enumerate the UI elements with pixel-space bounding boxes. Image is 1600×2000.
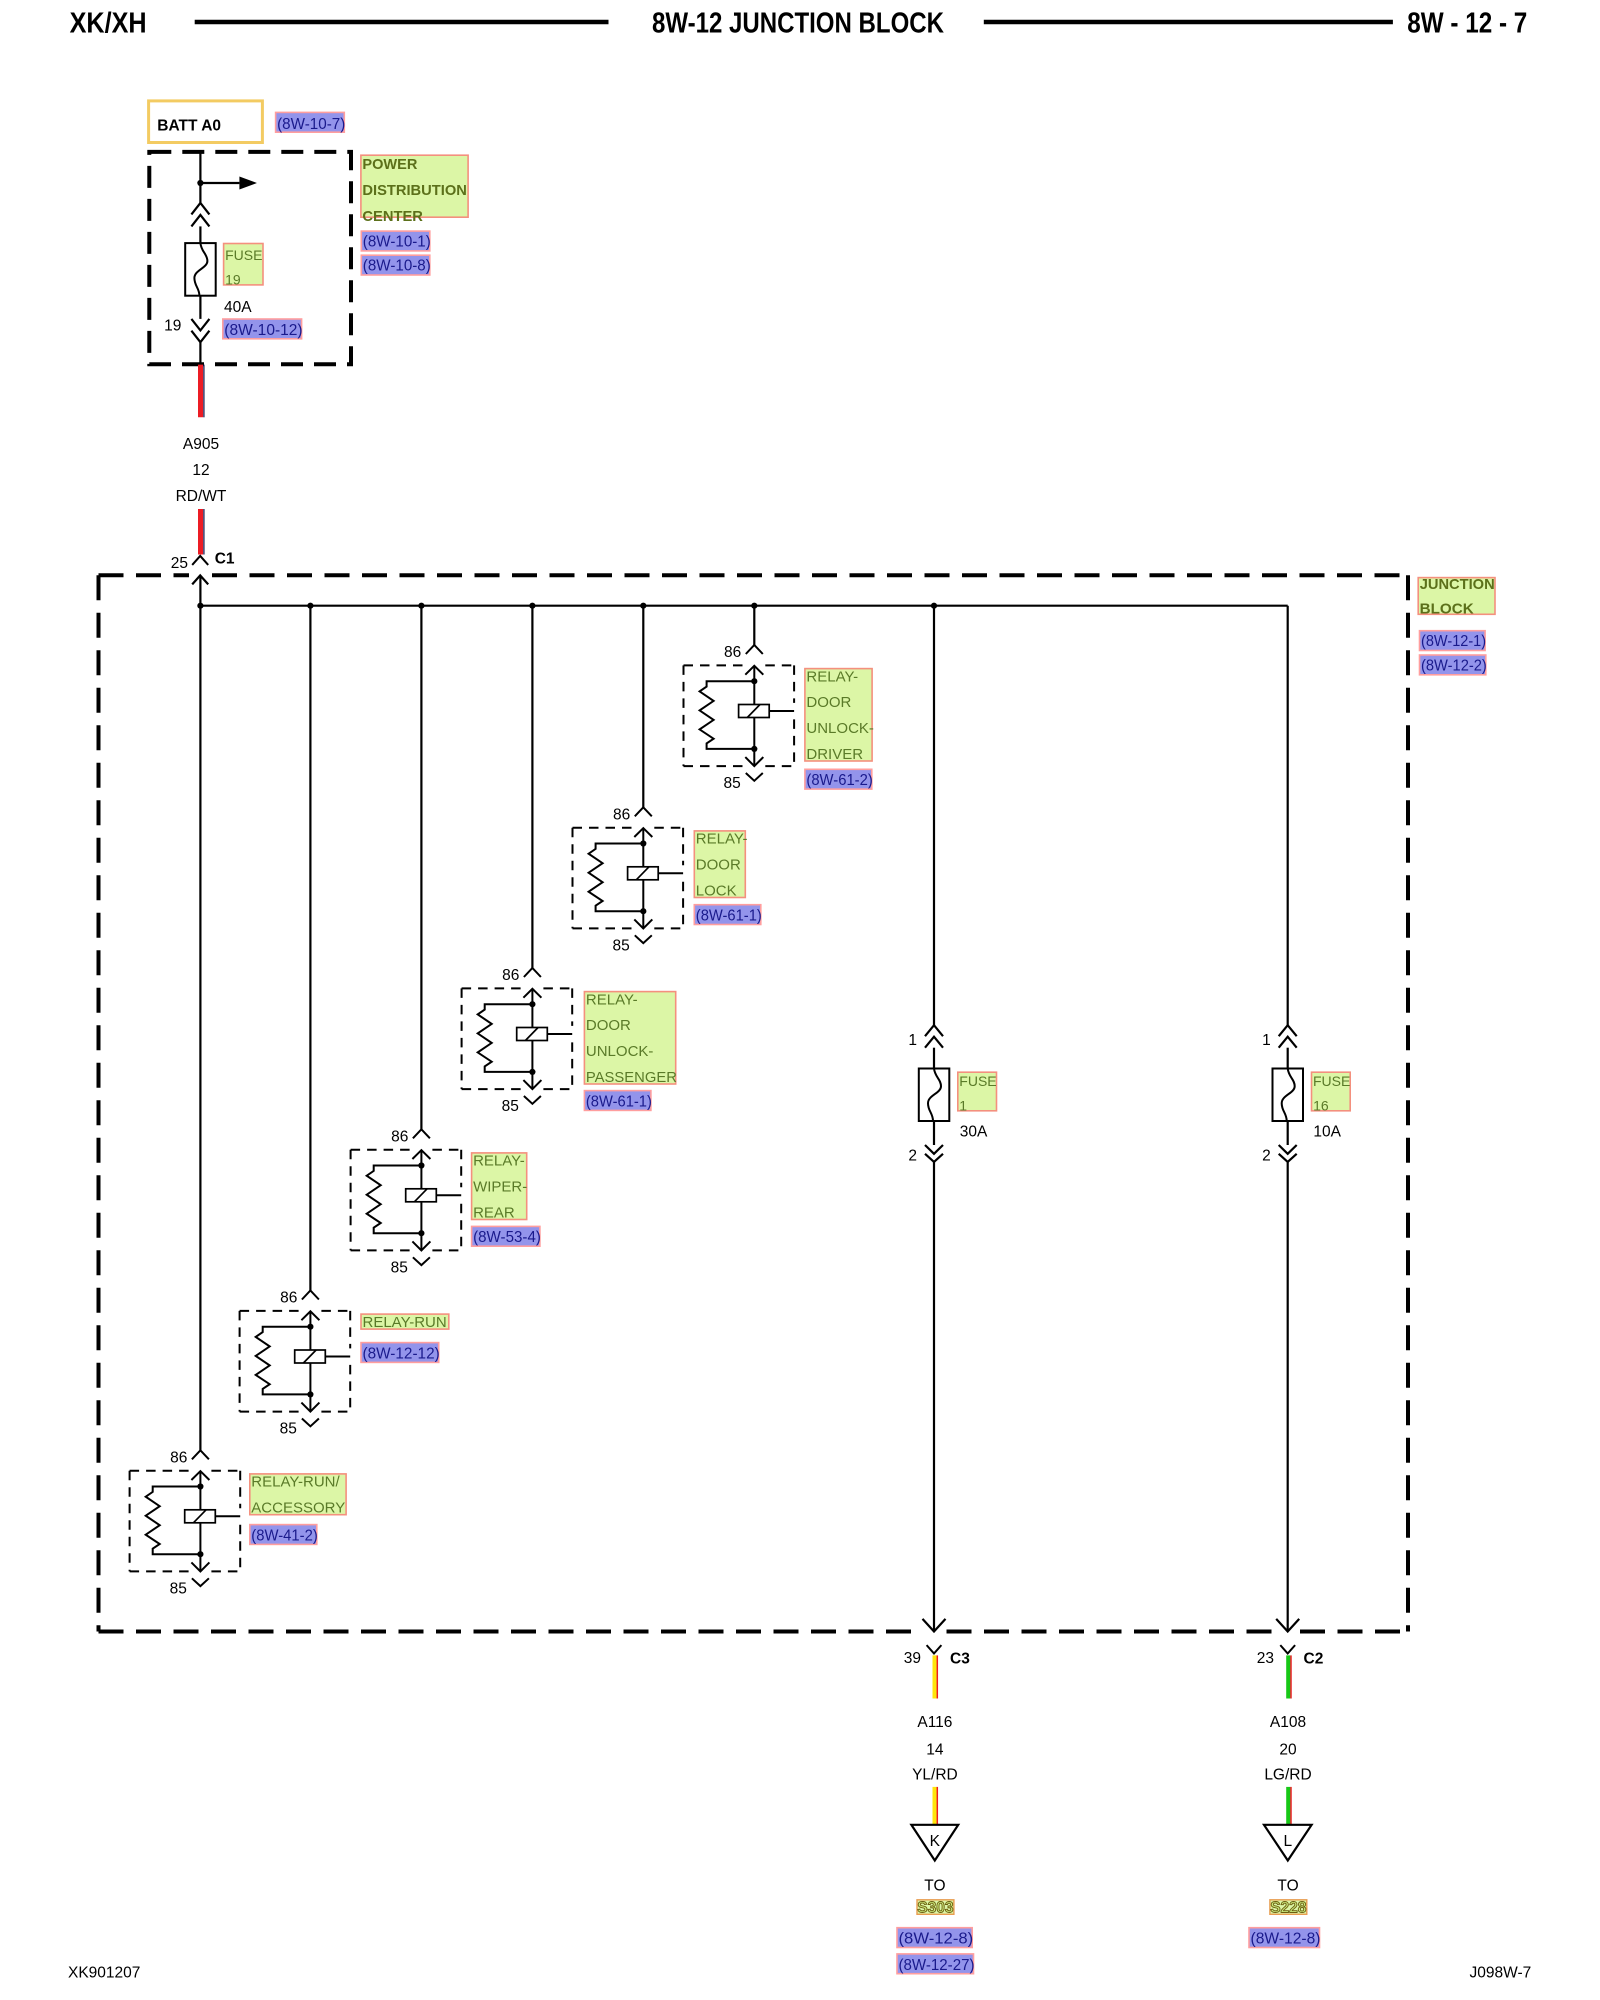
svg-text:(8W-10-1): (8W-10-1) — [363, 234, 431, 251]
svg-text:DOOR: DOOR — [806, 694, 851, 711]
svg-text:RELAY-RUN: RELAY-RUN — [363, 1314, 447, 1331]
svg-text:(8W-41-2): (8W-41-2) — [251, 1527, 317, 1544]
svg-text:C3: C3 — [950, 1651, 970, 1668]
svg-text:DOOR: DOOR — [696, 857, 741, 874]
svg-text:DRIVER: DRIVER — [806, 746, 863, 763]
svg-text:(8W-10-8): (8W-10-8) — [363, 258, 431, 275]
svg-text:RELAY-: RELAY- — [473, 1153, 525, 1170]
svg-text:REAR: REAR — [473, 1204, 515, 1221]
svg-text:S303: S303 — [917, 1899, 954, 1916]
svg-text:(8W-61-2): (8W-61-2) — [806, 772, 872, 789]
svg-text:CENTER: CENTER — [362, 208, 423, 225]
svg-text:XK/XH: XK/XH — [70, 7, 147, 39]
svg-text:DISTRIBUTION: DISTRIBUTION — [362, 182, 467, 199]
svg-text:(8W-10-7): (8W-10-7) — [277, 116, 345, 133]
svg-text:16: 16 — [1313, 1098, 1329, 1114]
svg-text:RD/WT: RD/WT — [176, 488, 227, 505]
svg-text:14: 14 — [926, 1742, 944, 1759]
svg-text:RELAY-RUN/: RELAY-RUN/ — [251, 1474, 340, 1491]
svg-text:8W - 12 - 7: 8W - 12 - 7 — [1407, 7, 1527, 39]
svg-text:LOCK: LOCK — [696, 882, 737, 899]
svg-text:19: 19 — [164, 318, 181, 335]
svg-text:C1: C1 — [215, 550, 235, 567]
svg-text:(8W-12-27): (8W-12-27) — [899, 1957, 975, 1974]
svg-text:LG/RD: LG/RD — [1264, 1767, 1311, 1784]
svg-text:1: 1 — [959, 1098, 967, 1114]
svg-text:POWER: POWER — [362, 156, 417, 173]
svg-text:PASSENGER: PASSENGER — [586, 1069, 677, 1086]
svg-text:20: 20 — [1279, 1742, 1297, 1759]
svg-text:FUSE: FUSE — [225, 247, 262, 263]
svg-text:L: L — [1283, 1833, 1292, 1850]
svg-text:A116: A116 — [917, 1714, 952, 1731]
svg-text:ACCESSORY: ACCESSORY — [251, 1500, 345, 1517]
svg-text:WIPER-: WIPER- — [473, 1179, 527, 1196]
svg-text:S228: S228 — [1270, 1899, 1307, 1916]
svg-text:(8W-53-4): (8W-53-4) — [473, 1229, 541, 1246]
svg-text:TO: TO — [924, 1877, 945, 1894]
svg-text:19: 19 — [225, 272, 241, 288]
svg-text:39: 39 — [904, 1650, 921, 1667]
svg-text:BATT A0: BATT A0 — [157, 118, 221, 135]
svg-text:RELAY-: RELAY- — [696, 831, 748, 848]
svg-text:(8W-12-12): (8W-12-12) — [363, 1345, 440, 1362]
svg-text:YL/RD: YL/RD — [912, 1767, 958, 1784]
svg-text:23: 23 — [1257, 1650, 1274, 1667]
svg-text:UNLOCK-: UNLOCK- — [806, 720, 874, 737]
svg-text:(8W-12-8): (8W-12-8) — [899, 1931, 974, 1948]
svg-text:JUNCTION: JUNCTION — [1420, 576, 1495, 593]
svg-text:8W-12 JUNCTION BLOCK: 8W-12 JUNCTION BLOCK — [652, 7, 944, 39]
svg-text:XK901207: XK901207 — [68, 1965, 140, 1982]
svg-text:TO: TO — [1277, 1877, 1298, 1894]
svg-text:(8W-61-1): (8W-61-1) — [586, 1093, 652, 1110]
svg-text:UNLOCK-: UNLOCK- — [586, 1043, 654, 1060]
svg-text:DOOR: DOOR — [586, 1017, 631, 1034]
svg-text:BLOCK: BLOCK — [1420, 601, 1474, 618]
svg-text:(8W-12-8): (8W-12-8) — [1251, 1931, 1321, 1948]
svg-text:A108: A108 — [1270, 1714, 1306, 1731]
svg-text:K: K — [930, 1833, 941, 1850]
svg-text:RELAY-: RELAY- — [586, 991, 638, 1008]
svg-text:25: 25 — [171, 555, 188, 572]
svg-text:RELAY-: RELAY- — [806, 668, 858, 685]
svg-text:C2: C2 — [1304, 1651, 1324, 1668]
svg-text:(8W-12-1): (8W-12-1) — [1421, 633, 1486, 650]
svg-text:(8W-10-12): (8W-10-12) — [224, 322, 302, 339]
svg-text:30A: 30A — [960, 1123, 988, 1140]
svg-text:12: 12 — [192, 462, 209, 479]
svg-text:(8W-12-2): (8W-12-2) — [1421, 658, 1487, 675]
svg-text:40A: 40A — [224, 299, 252, 316]
svg-text:J098W-7: J098W-7 — [1470, 1965, 1532, 1982]
svg-text:A905: A905 — [183, 436, 219, 453]
svg-text:10A: 10A — [1313, 1124, 1341, 1141]
svg-text:(8W-61-1): (8W-61-1) — [696, 907, 762, 924]
